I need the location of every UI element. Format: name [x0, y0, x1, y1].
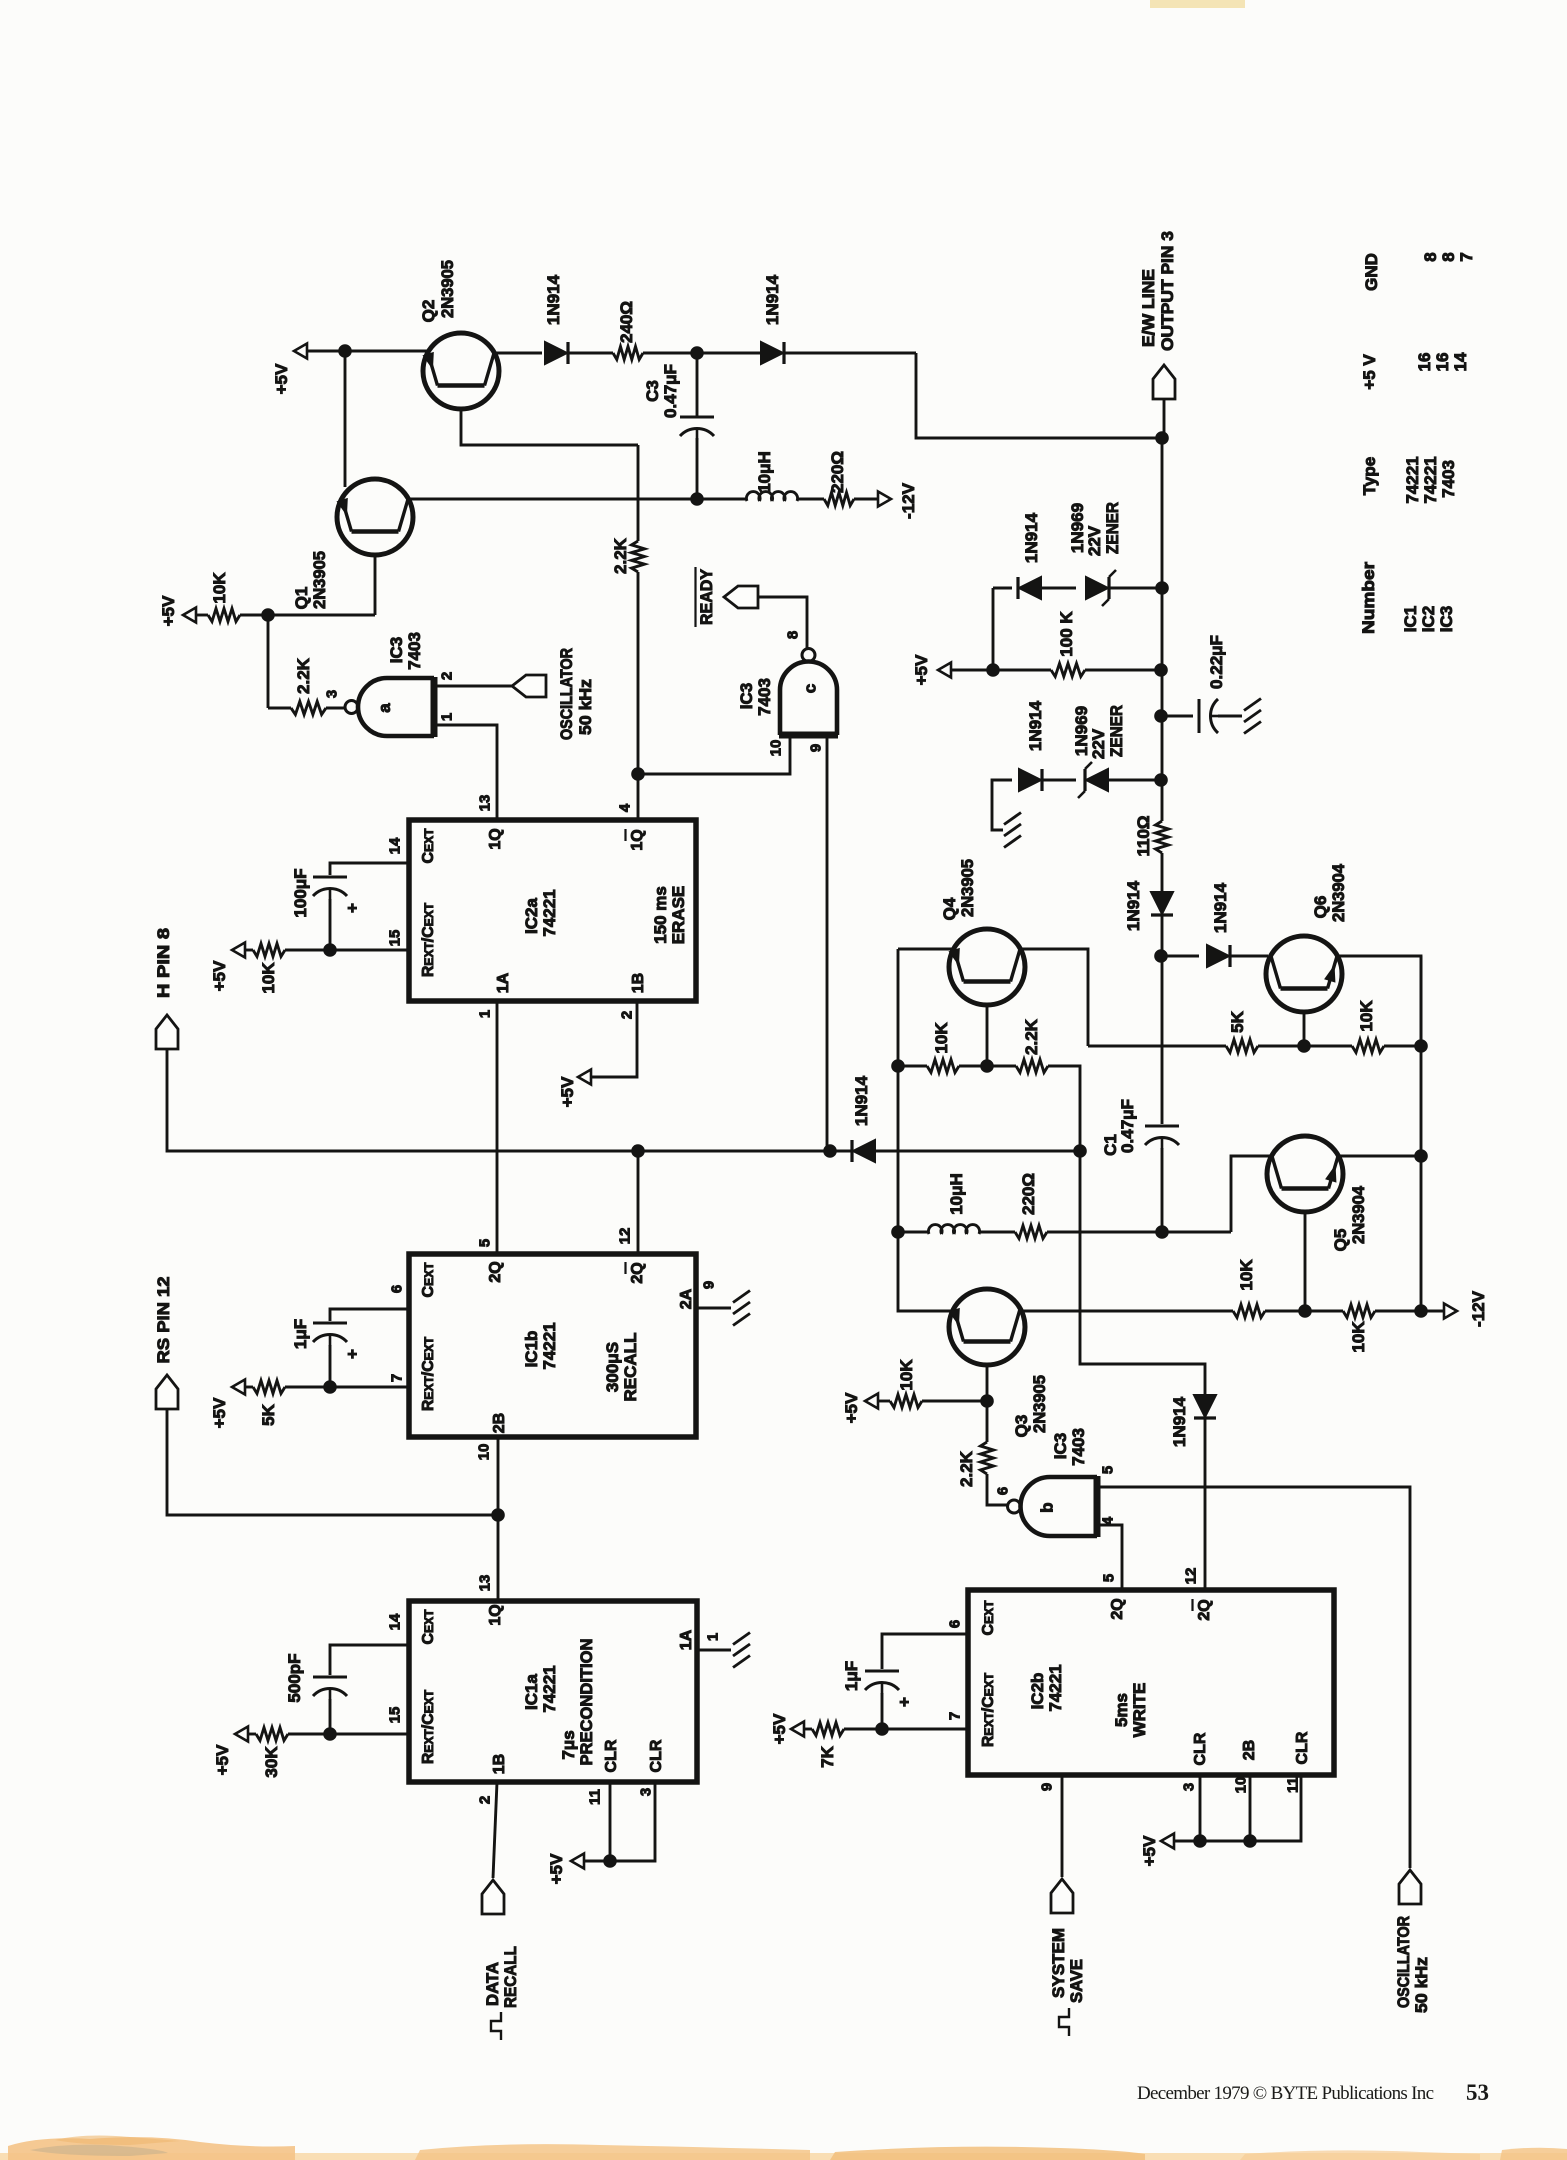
svg-text:CEXT: CEXT: [420, 1609, 437, 1645]
wire jog down to E/W node: [916, 353, 1162, 438]
svg-text:+5V: +5V: [159, 595, 178, 626]
svg-text:220Ω: 220Ω: [1019, 1173, 1038, 1215]
svg-text:2: 2: [438, 672, 455, 680]
svg-text:10: 10: [1232, 1777, 1249, 1794]
junction emitter rail / 10K: [891, 1059, 905, 1073]
+5V supply arrow (IC1b pin7): [232, 1380, 245, 1395]
svg-text:1N914: 1N914: [1022, 512, 1041, 563]
svg-text:2.2K: 2.2K: [957, 1450, 976, 1487]
wire 1uF to pin7 line: [881, 1693, 884, 1729]
svg-text:110Ω: 110Ω: [1134, 815, 1153, 856]
junction 100uF / 10K: [323, 943, 337, 957]
svg-text:IC2a: IC2a: [522, 898, 541, 934]
svg-text:+5V: +5V: [210, 960, 229, 991]
svg-text:300μS: 300μS: [603, 1342, 622, 1392]
wire IC1b pin10 down: [497, 1437, 500, 1515]
resistor 5K: [1226, 1040, 1258, 1053]
svg-text:2N3905: 2N3905: [958, 859, 977, 917]
svg-text:WRITE: WRITE: [1130, 1683, 1149, 1738]
svg-text:220Ω: 220Ω: [828, 451, 847, 493]
+5V supply arrow (Q1 base bias): [183, 608, 196, 623]
junction Q6 base / 5K 10K: [1297, 1039, 1311, 1053]
wire gate c pin10 to junction: [638, 735, 790, 774]
svg-text:11: 11: [586, 1789, 603, 1805]
svg-text:16: 16: [1433, 353, 1452, 372]
resistor 2.2K (Q4): [1016, 1060, 1048, 1073]
wire junction up: [992, 588, 995, 670]
diode 1N914 (Q2 collector): [545, 342, 567, 364]
svg-text:+5V: +5V: [213, 1744, 232, 1775]
ground (IC1a pin 1): [733, 1633, 750, 1645]
capacitor 1uF (IC1b): [313, 1322, 347, 1325]
inductor 10uH: [746, 492, 797, 501]
svg-text:2: 2: [476, 1796, 493, 1804]
svg-text:7403: 7403: [755, 678, 774, 716]
junction emitter rail / inductor: [891, 1225, 905, 1239]
wire zener to main line: [1109, 779, 1161, 782]
svg-text:CLR: CLR: [648, 1739, 665, 1772]
svg-text:10: 10: [767, 740, 784, 757]
wire 5K to IC1b pin 7: [285, 1386, 409, 1389]
svg-text:9: 9: [700, 1281, 717, 1289]
wire +5V to junction: [951, 669, 993, 672]
svg-text:RECALL: RECALL: [501, 1946, 520, 2008]
wire IC2b pin9 to SYSTEM SAVE flag: [1061, 1775, 1064, 1877]
svg-text:+5 V: +5 V: [1360, 354, 1379, 390]
zener 1N969 22V (upper clamp): [1086, 577, 1108, 599]
svg-text:2N3904: 2N3904: [1349, 1185, 1368, 1244]
svg-text:11: 11: [1284, 1777, 1301, 1793]
junction RS / IC1a pin13: [491, 1508, 505, 1522]
wire junction down: [986, 1401, 989, 1442]
wire junction to IC1a pin 13: [497, 1515, 500, 1601]
junction rail / -12V: [1414, 1304, 1428, 1318]
wire node to C3: [696, 353, 699, 416]
svg-text:7: 7: [1457, 252, 1476, 261]
wire ground to 1N914 (lower clamp): [992, 780, 1012, 830]
svg-text:a: a: [375, 703, 394, 713]
svg-text:1: 1: [438, 713, 455, 721]
svg-text:+: +: [343, 1349, 362, 1359]
svg-text:ERASE: ERASE: [669, 886, 688, 945]
svg-text:REXT/CEXT: REXT/CEXT: [420, 1689, 437, 1764]
svg-text:100 K: 100 K: [1057, 611, 1076, 657]
wire IC2b pin10 down: [1249, 1775, 1252, 1841]
svg-text:14: 14: [1451, 352, 1470, 371]
svg-text:10μH: 10μH: [755, 451, 774, 493]
svg-text:+5V: +5V: [210, 1397, 229, 1428]
svg-text:H PIN 8: H PIN 8: [154, 928, 173, 998]
diode 1N914 (main line): [1151, 892, 1173, 914]
junction gate c pin9: [823, 1144, 837, 1158]
svg-text:3: 3: [637, 1788, 654, 1796]
svg-text:OSCILLATOR: OSCILLATOR: [557, 648, 576, 740]
svg-text:5K: 5K: [259, 1403, 278, 1425]
svg-text:RECALL: RECALL: [621, 1333, 640, 1402]
svg-text:REXT/CEXT: REXT/CEXT: [980, 1672, 997, 1747]
svg-text:14: 14: [386, 1613, 403, 1630]
diode 1N914 (lower clamp): [1019, 769, 1041, 791]
svg-text:1N914: 1N914: [1211, 882, 1230, 933]
svg-text:2.2K: 2.2K: [1022, 1018, 1041, 1055]
wire H PIN 8 to recall node: [167, 1049, 638, 1151]
svg-text:4: 4: [616, 803, 633, 812]
svg-text:1N914: 1N914: [544, 274, 563, 325]
capacitor 1uF (IC2b): [865, 1670, 899, 1673]
svg-text:1N914: 1N914: [763, 274, 782, 325]
wire rail to Q3 emitter: [898, 1232, 956, 1311]
svg-text:Q6: Q6: [1311, 896, 1330, 919]
svg-text:1N914: 1N914: [1170, 1396, 1189, 1447]
wire IC1b pin9 to ground: [696, 1307, 731, 1310]
resistor 2.2K (Q3 to gate b): [981, 1442, 994, 1474]
junction main line / 0.22uF: [1154, 709, 1168, 723]
svg-text:1: 1: [704, 1633, 721, 1641]
wire IC2b pin6 to 1uF: [882, 1634, 968, 1669]
junction write pulse node: [1073, 1144, 1087, 1158]
svg-text:1B: 1B: [491, 1754, 508, 1774]
inductor 10uH (driver): [928, 1225, 979, 1234]
transistor Q3 2N3905: [949, 1289, 1025, 1365]
svg-text:2Q: 2Q: [1109, 1598, 1126, 1619]
scan artifact: top edge tint: [1150, 0, 1245, 8]
wire 10K to IC2a pin 15: [285, 949, 409, 952]
wire diode2 right: [784, 352, 916, 355]
transistor Q1 2N3905: [337, 479, 413, 555]
resistor 240ohm: [613, 347, 643, 360]
svg-text:2N3905: 2N3905: [1030, 1375, 1049, 1433]
wire Q5 base down: [1304, 1210, 1307, 1311]
wire junction to IC2a pin 4: [637, 774, 640, 820]
svg-text:ZENER: ZENER: [1103, 502, 1122, 554]
junction rail / Q5 emitter: [1414, 1149, 1428, 1163]
wire 1N914 to zener: [1042, 779, 1076, 782]
wire IC2a pin1 to IC1b pin5: [496, 1001, 499, 1254]
wire rail to 10uH: [898, 1231, 929, 1234]
wire Q1 base left to 10K junction: [268, 614, 375, 617]
svg-text:PRECONDITION: PRECONDITION: [577, 1639, 596, 1766]
wire node to 1N914: [1161, 955, 1199, 958]
svg-text:IC3: IC3: [1051, 1433, 1070, 1459]
svg-text:IC3: IC3: [387, 637, 406, 663]
junction 500pF / 30K: [323, 1727, 337, 1741]
wire gate a pin2 to oscillator flag: [434, 685, 512, 688]
wire node to 10uH: [697, 498, 747, 501]
wire junction down to 2.2K: [267, 615, 270, 708]
svg-text:Q1: Q1: [292, 587, 311, 610]
wire emitter rail to Q4 emitter: [898, 948, 956, 951]
+5V supply arrow (IC1a CLR): [571, 1854, 584, 1869]
svg-text:+: +: [895, 1697, 914, 1707]
svg-text:SYSTEM: SYSTEM: [1049, 1928, 1068, 1998]
svg-text:7K: 7K: [818, 1745, 837, 1767]
svg-text:RS PIN 12: RS PIN 12: [154, 1277, 173, 1364]
resistor 2.2K (Q2 base): [632, 541, 645, 572]
svg-text:74221: 74221: [1403, 456, 1422, 503]
wire write node to 1N914: [1080, 1151, 1205, 1394]
svg-text:ZENER: ZENER: [1107, 705, 1126, 757]
svg-text:10K: 10K: [1349, 1321, 1368, 1353]
svg-text:REXT/CEXT: REXT/CEXT: [420, 902, 437, 977]
svg-text:7μs: 7μs: [559, 1730, 578, 1759]
wire C3 to bottom node: [696, 438, 699, 499]
svg-text:7: 7: [946, 1712, 963, 1720]
svg-text:E/W LINE: E/W LINE: [1139, 269, 1158, 347]
svg-text:1μF: 1μF: [842, 1661, 861, 1691]
capacitor 0.22uF: [1198, 699, 1201, 733]
wire 7K to IC2b pin 7: [844, 1728, 968, 1731]
wire 110ohm to diode: [1161, 853, 1164, 891]
capacitor 100uF: [313, 876, 347, 879]
wire IC1a pin11 down: [609, 1782, 612, 1861]
svg-text:CEXT: CEXT: [980, 1600, 997, 1636]
junction main line / lower clamp: [1154, 773, 1168, 787]
wire 1uF to pin7 line: [329, 1345, 332, 1387]
wire +5V to 7K: [804, 1728, 812, 1731]
junction clamp +5V: [986, 663, 1000, 677]
wire IC2b pin11 down-left: [1174, 1775, 1301, 1841]
svg-text:1: 1: [476, 1010, 493, 1018]
svg-text:1N914: 1N914: [1026, 700, 1045, 751]
zener 1N969 22V (lower clamp): [1086, 769, 1108, 791]
svg-text:2Q: 2Q: [487, 1261, 504, 1282]
wire Q5 emitter to rail: [1336, 1155, 1421, 1158]
resistor 220ohm: [824, 493, 854, 506]
svg-text:6: 6: [946, 1620, 963, 1628]
junction main line / 100K: [1154, 663, 1168, 677]
svg-text:b: b: [1038, 1502, 1057, 1512]
wire 10K to junction: [959, 1065, 987, 1068]
svg-text:REXT/CEXT: REXT/CEXT: [420, 1336, 437, 1411]
svg-text:100μF: 100μF: [291, 868, 310, 917]
svg-text:Q4: Q4: [940, 897, 959, 920]
svg-text:+: +: [343, 903, 362, 913]
svg-text:DATA: DATA: [483, 1962, 502, 2006]
+5V supply arrow (Q1/Q2 rail): [294, 344, 307, 359]
svg-text:74221: 74221: [540, 889, 559, 936]
svg-text:53: 53: [1466, 2080, 1489, 2105]
wire 10K to Q5 base: [1265, 1310, 1305, 1313]
wire 2.2K to write node: [1048, 1066, 1080, 1151]
svg-text:240Ω: 240Ω: [617, 301, 636, 343]
junction IC2a pin4 / gate c pin10: [631, 767, 645, 781]
svg-text:7: 7: [388, 1374, 405, 1382]
resistor 10K (Q5 base right): [1343, 1305, 1375, 1318]
resistor 10K (IC2a Rext): [253, 944, 285, 957]
wire Q2 collector to diode: [492, 352, 542, 355]
svg-text:+5V: +5V: [558, 1076, 577, 1107]
junction 1uF / 7K: [875, 1722, 889, 1736]
svg-text:2N3904: 2N3904: [1329, 863, 1348, 922]
svg-text:10K: 10K: [932, 1022, 951, 1054]
junction main line / upper clamp: [1155, 581, 1169, 595]
capacitor 500pF: [313, 1676, 347, 1679]
wire Q4 base down: [986, 1003, 989, 1066]
IC IC1b 74221 monostable (300us RECALL): [409, 1254, 696, 1437]
wire diode to write node (crosses emitter rail): [876, 1150, 1080, 1153]
wire diode to node: [1161, 915, 1164, 956]
wire 5K line left: [1088, 1045, 1226, 1048]
junction CLR pins IC1a: [603, 1854, 617, 1868]
wire 0.22uF to ground: [1218, 715, 1242, 718]
wire 220ohm to -12V: [854, 498, 878, 501]
svg-text:IC3: IC3: [737, 683, 756, 709]
svg-text:74221: 74221: [1421, 456, 1440, 503]
svg-text:10K: 10K: [1237, 1259, 1256, 1291]
svg-text:CLR: CLR: [603, 1739, 620, 1772]
wire junction to +5V: [584, 1860, 610, 1863]
wire Q4 collector to 5K line: [1018, 949, 1088, 1046]
wire Q5 base to 10K: [1305, 1310, 1343, 1313]
svg-text:10K: 10K: [210, 572, 229, 604]
wire corner up to Q5 collector: [1231, 1156, 1270, 1232]
wire E/W node down: [1161, 438, 1164, 821]
transistor Q6 2N3904: [1266, 936, 1342, 1012]
junction main line / Q6: [1154, 949, 1168, 963]
svg-text:8: 8: [784, 631, 801, 639]
ground (lower clamp): [1004, 813, 1021, 825]
svg-text:IC2b: IC2b: [1028, 1673, 1047, 1710]
svg-text:CEXT: CEXT: [420, 828, 437, 864]
flag SYSTEM SAVE input: [1051, 1879, 1073, 1913]
svg-text:IC3: IC3: [1437, 606, 1456, 632]
wire junction to 2.2K: [987, 1065, 1016, 1068]
wire 500pF to pin15 line: [329, 1699, 332, 1734]
svg-text:2.2K: 2.2K: [294, 657, 313, 694]
+5V supply arrow (clamp): [938, 663, 951, 678]
svg-text:8: 8: [1421, 252, 1440, 261]
wire to -12V arrow: [1421, 1310, 1444, 1313]
IC IC2a 74221 monostable (150ms ERASE): [409, 820, 696, 1001]
flag E/W LINE output: [1153, 365, 1175, 399]
wire junction to Q2 emitter: [345, 350, 430, 353]
wire junction to IC1b pin 12: [637, 1151, 640, 1254]
wire diode to Q6: [1230, 955, 1268, 958]
svg-text:2N3905: 2N3905: [310, 551, 329, 609]
+5V supply arrow (IC1a pin15): [235, 1727, 248, 1742]
svg-text:+5V: +5V: [912, 654, 931, 685]
wire +5V to 30K: [248, 1733, 256, 1736]
svg-text:GND: GND: [1362, 253, 1381, 291]
wire IC1b pin6 to 1uF: [330, 1309, 409, 1321]
transistor Q5 2N3904: [1267, 1136, 1343, 1212]
svg-text:74221: 74221: [540, 1322, 559, 1369]
wire 10K to rail: [1375, 1310, 1421, 1313]
junction C3 bottom node: [690, 492, 704, 506]
wire 30K to IC1a pin 15: [288, 1733, 409, 1736]
wire IC1a pin1 to ground: [697, 1649, 731, 1652]
svg-text:22V: 22V: [1089, 728, 1108, 759]
flag READY output: [724, 586, 758, 608]
junction 1uF / 5K: [323, 1380, 337, 1394]
svg-text:3: 3: [1180, 1783, 1197, 1791]
wire 10K left: [898, 1065, 927, 1068]
wire +5V down to Q1 emitter: [344, 351, 347, 487]
svg-text:1μF: 1μF: [291, 1319, 310, 1349]
svg-text:-12V: -12V: [899, 482, 918, 519]
wire 5K to Q6 base: [1258, 1045, 1304, 1048]
diode 1N914 (IC2b 2Q): [1194, 1395, 1216, 1417]
svg-text:50 kHz: 50 kHz: [1412, 1957, 1431, 2013]
svg-text:74221: 74221: [1046, 1664, 1065, 1711]
flag RS PIN 12: [156, 1375, 178, 1409]
transistor Q4 2N3905: [949, 929, 1025, 1005]
svg-text:READY: READY: [697, 568, 716, 625]
svg-text:6: 6: [388, 1285, 405, 1293]
scan artifact: bottom orange band: [0, 2153, 1567, 2160]
diode 1N914 (Q6 base): [1207, 945, 1229, 967]
wire +5V to 5K: [245, 1386, 253, 1389]
wire gate b pin5 to oscillator flag: [1097, 1487, 1410, 1868]
wire flag to E/W node: [1163, 399, 1166, 438]
wire +5V to junction: [307, 350, 345, 353]
IC IC2b 74221 monostable (5ms WRITE): [968, 1590, 1334, 1775]
wire to 1N914: [993, 587, 1012, 590]
junction -12V rail: [1414, 1039, 1428, 1053]
svg-text:OSCILLATOR: OSCILLATOR: [1394, 1916, 1413, 2008]
svg-text:2B: 2B: [1241, 1740, 1258, 1760]
wire -12V rail vertical: [1420, 956, 1423, 1311]
wire recall line to gate c pin9 node: [638, 1150, 830, 1153]
svg-text:Q2: Q2: [419, 300, 438, 323]
svg-text:CLR: CLR: [1294, 1731, 1311, 1764]
svg-text:CLR: CLR: [1192, 1732, 1209, 1765]
svg-text:9: 9: [1038, 1783, 1055, 1791]
svg-text:CEXT: CEXT: [420, 1262, 437, 1298]
svg-text:+5V: +5V: [842, 1392, 861, 1423]
wire 1N914 to zener: [1042, 587, 1076, 590]
svg-text:2Q: 2Q: [1196, 1599, 1213, 1620]
flag DATA RECALL input: [482, 1880, 504, 1914]
resistor 10K (Q3 base): [890, 1395, 922, 1408]
svg-text:2: 2: [618, 1011, 635, 1019]
svg-text:1N914: 1N914: [1124, 880, 1143, 931]
wire node to diode2: [697, 352, 762, 355]
svg-text:7403: 7403: [1439, 460, 1458, 498]
+5V supply arrow (Q3 base): [865, 1394, 878, 1409]
svg-text:+5V: +5V: [547, 1853, 566, 1884]
svg-text:c: c: [801, 684, 820, 693]
svg-text:2A: 2A: [678, 1288, 695, 1309]
+5V supply arrow (IC2a pin15): [232, 943, 245, 958]
svg-text:IC1: IC1: [1401, 606, 1420, 632]
wire 240ohm to node C3top: [643, 352, 697, 355]
resistor 5K (IC1b Rext): [253, 1381, 285, 1394]
wire 10uH to 220ohm: [797, 498, 824, 501]
svg-text:14: 14: [386, 837, 403, 854]
svg-text:150 ms: 150 ms: [651, 886, 670, 944]
junction Q4 base / 10K 2.2K: [980, 1059, 994, 1073]
svg-text:10μH: 10μH: [947, 1173, 966, 1215]
svg-text:0.22μF: 0.22μF: [1207, 635, 1226, 689]
resistor 110ohm: [1156, 821, 1169, 853]
svg-text:IC1b: IC1b: [522, 1331, 541, 1368]
svg-text:30K: 30K: [262, 1746, 281, 1778]
wire to 2.2K: [637, 445, 640, 541]
wire Q6 base to 10K: [1304, 1045, 1352, 1048]
svg-text:December 1979 © BYTE Publicati: December 1979 © BYTE Publications Inc: [1137, 2083, 1434, 2104]
wire C1 to emitter rail: [1161, 1148, 1164, 1232]
wire 1N914 to IC2b pin 12: [1204, 1418, 1207, 1590]
wire +5V to 10K: [196, 614, 208, 617]
flag OSCILLATOR input: [512, 675, 546, 697]
wire 10K to junction: [240, 614, 268, 617]
resistor 30K (IC1a Rext): [256, 1728, 288, 1741]
svg-text:IC2: IC2: [1419, 606, 1438, 632]
wire 220ohm to Q5 corner: [1047, 1231, 1231, 1234]
wire node down to C1: [1161, 956, 1164, 1124]
wire 10uH to 220ohm: [979, 1231, 1015, 1234]
